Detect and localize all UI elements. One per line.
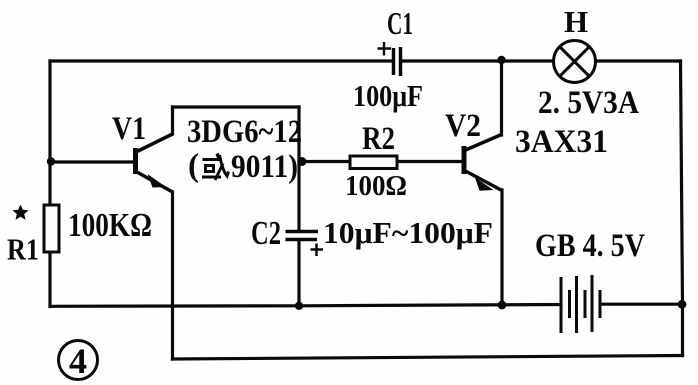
node R2/C2: [298, 157, 307, 166]
node battery right: [678, 300, 687, 309]
lamp H: [554, 41, 596, 83]
svg-text:C1: C1: [387, 5, 413, 41]
arrowhead V1 emitter: [148, 174, 166, 188]
node V2 emitter ground: [498, 301, 507, 310]
wire left vertical upper: [48, 61, 51, 205]
resistor R2: [350, 156, 397, 169]
figure number circle 4: [59, 341, 98, 380]
wire V1 emitter vertical: [171, 192, 174, 359]
svg-text:V2: V2: [445, 108, 481, 144]
svg-text:H: H: [564, 4, 588, 39]
svg-text:100Ω: 100Ω: [345, 171, 407, 202]
capacitor C1: [394, 47, 401, 76]
battery GB: [561, 275, 600, 333]
wire collector drop V1: [171, 107, 174, 134]
svg-text:GB 4. 5V: GB 4. 5V: [535, 228, 645, 264]
transistor Q V1: [136, 134, 173, 192]
wire R2 left lead: [299, 160, 350, 163]
node C2 ground: [295, 302, 303, 310]
wire box right vertical upper (to R2/C2 node): [297, 107, 300, 230]
wire bottom rail left: [50, 305, 561, 307]
wire top middle (C1 to node A): [402, 59, 552, 62]
svg-text:(: (: [188, 148, 199, 184]
wire bottom rail right (battery to right rail): [601, 303, 683, 306]
node base V1: [47, 157, 55, 165]
wire bottom return (V1 emitter to right rail): [173, 356, 683, 360]
glyph CJK huo (or) hand drawn: [202, 154, 229, 181]
svg-text:C2: C2: [251, 215, 281, 252]
wire top left (supply rail): [50, 59, 392, 62]
resistor R1: [44, 205, 59, 252]
node V2 collector: [497, 56, 505, 64]
svg-text:3DG6~12: 3DG6~12: [187, 114, 302, 150]
wire right vertical lower stub: [681, 304, 684, 356]
capacitor C2: [286, 232, 319, 240]
wire R2 right lead: [396, 160, 462, 163]
svg-text:V1: V1: [112, 111, 146, 147]
star mark: [13, 205, 29, 220]
wire right vertical rail: [681, 61, 683, 304]
transistor Q V2: [464, 135, 502, 191]
svg-text:R2: R2: [362, 121, 395, 157]
svg-text:100KΩ: 100KΩ: [68, 207, 152, 244]
wire box top (V1 collector rail): [173, 105, 300, 108]
wire V2 collector vertical: [500, 60, 503, 135]
plus sign C1: [378, 42, 392, 56]
svg-text:10μF~100μF: 10μF~100μF: [323, 215, 493, 250]
svg-text:2. 5V3A: 2. 5V3A: [538, 85, 639, 121]
svg-text:4: 4: [69, 341, 87, 381]
plus sign C2: [311, 244, 324, 257]
svg-text:100μF: 100μF: [353, 78, 423, 113]
wire left vertical lower (R1 bottom lead): [48, 252, 51, 307]
wire top right (lamp to right rail): [597, 59, 681, 62]
svg-text:9011): 9011): [231, 149, 298, 185]
arrowhead V2 emitter: [475, 178, 494, 191]
svg-text:3AX31: 3AX31: [515, 124, 608, 160]
svg-text:R1: R1: [7, 232, 39, 267]
wire V1 base: [50, 160, 133, 163]
wire box right vertical lower (C2 to ground): [297, 241, 300, 305]
wire V2 emitter vertical: [500, 190, 503, 305]
